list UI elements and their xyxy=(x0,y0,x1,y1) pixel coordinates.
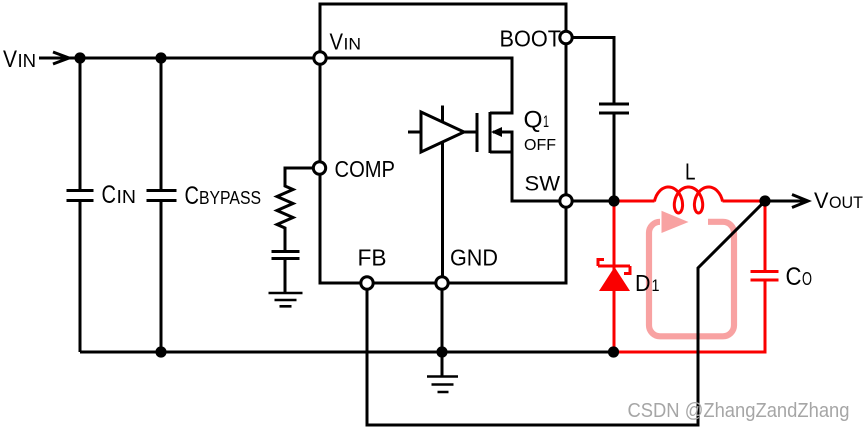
svg-text:IN: IN xyxy=(344,35,362,54)
svg-text:V: V xyxy=(814,188,829,213)
svg-text:V: V xyxy=(3,46,17,73)
svg-text:COMP: COMP xyxy=(335,156,396,182)
svg-text:V: V xyxy=(330,29,344,55)
svg-text:BOOT: BOOT xyxy=(500,26,562,52)
svg-text:O: O xyxy=(802,269,812,289)
svg-text:C: C xyxy=(786,263,802,291)
svg-text:SW: SW xyxy=(525,173,561,196)
svg-text:Q: Q xyxy=(524,107,543,134)
svg-text:CSDN @ZhangZandZhang: CSDN @ZhangZandZhang xyxy=(628,400,850,422)
svg-text:1: 1 xyxy=(652,276,660,295)
svg-text:C: C xyxy=(102,181,117,209)
svg-text:BYPASS: BYPASS xyxy=(199,188,261,208)
svg-text:D: D xyxy=(635,270,651,296)
svg-text:1: 1 xyxy=(543,112,549,131)
svg-text:IN: IN xyxy=(117,187,137,207)
svg-text:OUT: OUT xyxy=(829,194,863,212)
svg-text:GND: GND xyxy=(450,245,498,271)
svg-text:OFF: OFF xyxy=(524,137,556,154)
svg-text:L: L xyxy=(685,159,696,185)
svg-text:IN: IN xyxy=(18,51,37,71)
svg-text:C: C xyxy=(185,182,200,210)
svg-text:FB: FB xyxy=(358,245,387,271)
